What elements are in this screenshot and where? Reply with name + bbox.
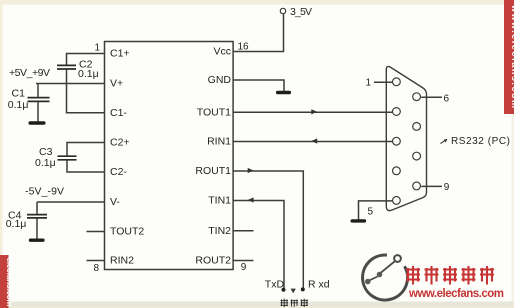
U1 right pin labels — [195, 46, 231, 267]
DB9 pin 8 — [413, 152, 421, 160]
arrow to MCU — [291, 289, 296, 294]
wire C2 to C1- pin — [67, 70, 105, 113]
DB9 pin 2 — [393, 108, 401, 116]
svg-text:0.1μ: 0.1μ — [8, 99, 29, 111]
svg-text:3_5V: 3_5V — [290, 6, 312, 18]
wire C1+ pin1 to C2 — [67, 54, 105, 65]
watermark bottom-left red bar — [0, 255, 14, 308]
svg-text:TOUT2: TOUT2 — [110, 226, 144, 238]
svg-text:TxD: TxD — [265, 279, 285, 291]
wire ROUT2 stub — [233, 260, 253, 262]
wire RIN1 from DB9 pin3 — [233, 141, 393, 143]
arrow on RIN1 wire — [311, 138, 317, 143]
capacitor C1 plates — [28, 98, 50, 102]
svg-text:RIN1: RIN1 — [207, 136, 231, 148]
arrow on TOUT1 wire — [311, 109, 317, 114]
ground for DB9 pin5 — [351, 219, 367, 222]
ground for C1 — [29, 121, 46, 124]
svg-text:6: 6 — [444, 93, 450, 104]
capacitor C4 stem — [36, 202, 38, 239]
wire DB9 pin5 to ground — [359, 201, 393, 220]
ground for C4 — [29, 239, 45, 242]
DB9 pin 5 — [393, 197, 401, 205]
svg-text:0.1μ: 0.1μ — [35, 157, 56, 169]
U1 left pin labels — [110, 48, 144, 267]
svg-text:TOUT1: TOUT1 — [197, 106, 231, 118]
node dot R xd wire end — [301, 287, 305, 291]
svg-text:C2-: C2- — [110, 166, 127, 178]
wire Vcc pin16 to 3_5V terminal — [233, 14, 283, 51]
svg-text:TIN2: TIN2 — [208, 225, 231, 237]
wire C3 to C2- pin — [67, 161, 105, 173]
node dot TxD wire end — [282, 288, 286, 292]
wire DB9 pin1 — [374, 81, 393, 83]
svg-text:ROUT2: ROUT2 — [195, 255, 231, 267]
watermark elecfans logo icon — [363, 255, 408, 300]
svg-text:www.elecfans.com: www.elecfans.com — [510, 4, 514, 108]
svg-text:Vcc: Vcc — [213, 46, 231, 58]
svg-text:www.elecfans.com: www.elecfans.com — [408, 288, 504, 300]
svg-text:0.1μ: 0.1μ — [78, 68, 99, 80]
DB9 pin 6 — [413, 93, 421, 101]
DB9 pin 1 — [393, 78, 401, 86]
svg-text:-5V_-9V: -5V_-9V — [25, 186, 64, 198]
wire TIN1 from TxD — [233, 201, 284, 289]
svg-text:C2+: C2+ — [110, 137, 130, 149]
svg-text:RS232 (PC): RS232 (PC) — [451, 136, 510, 147]
svg-text:C1+: C1+ — [110, 48, 130, 60]
capacitor C3 labels — [35, 146, 56, 169]
svg-text:16: 16 — [238, 42, 250, 53]
svg-text:C1: C1 — [12, 87, 26, 99]
terminal 3_5V — [280, 6, 312, 18]
wire C2+ pin to C3 — [67, 143, 105, 156]
wire DB9 pin6 — [421, 96, 442, 98]
svg-text:ROUT1: ROUT1 — [195, 165, 231, 177]
wire DB9 pin9 — [421, 185, 442, 187]
svg-text:0.1μ: 0.1μ — [6, 218, 27, 230]
capacitor C4 plates — [27, 215, 47, 218]
watermark top-right red bar — [504, 0, 514, 114]
capacitor C1 stem — [37, 84, 39, 122]
DB9 pin 3 — [393, 137, 401, 145]
arrow on TIN1 wire — [248, 197, 254, 202]
wire RIN2 stub — [87, 260, 105, 262]
svg-text:5: 5 — [368, 207, 374, 218]
svg-text:1: 1 — [365, 78, 371, 89]
capacitor C2 labels — [78, 59, 99, 80]
wire ROUT1 to R xd — [233, 171, 303, 288]
connector J1 DB9 shell — [386, 66, 426, 210]
IC U1 MAX232 box — [105, 42, 234, 270]
svg-text:1: 1 — [94, 43, 100, 54]
svg-text:8: 8 — [93, 263, 99, 274]
wire GND pin to ground — [233, 80, 284, 91]
arrow on ROUT1 wire — [248, 168, 254, 173]
capacitor C4 labels — [6, 210, 27, 230]
DB9 pin 7 — [413, 123, 421, 131]
svg-text:TIN1: TIN1 — [208, 195, 231, 207]
label 单片机 (MCU) pseudo-glyphs — [281, 299, 309, 307]
wire V- rail — [37, 201, 105, 203]
svg-text:R xd: R xd — [308, 279, 330, 291]
ground for GND pin — [276, 91, 291, 94]
svg-text:V+: V+ — [110, 78, 123, 90]
wire TIN2 stub — [233, 230, 253, 232]
label RS232 (PC) — [441, 136, 511, 147]
capacitor C3 plates — [58, 156, 77, 160]
watermark 电子发烧友 pseudo-glyphs — [406, 266, 494, 285]
wire TOUT1 to DB9 pin2 — [233, 111, 393, 113]
svg-text:9: 9 — [444, 182, 450, 193]
svg-text:V-: V- — [110, 196, 120, 208]
svg-text:C1-: C1- — [110, 107, 127, 119]
capacitor C2 plates — [57, 65, 76, 69]
wire V+ rail — [36, 83, 105, 85]
capacitor C1 labels — [8, 87, 29, 111]
DB9 pin 9 — [413, 182, 421, 190]
svg-text:9: 9 — [241, 262, 247, 273]
svg-text:GND: GND — [208, 74, 232, 86]
svg-text:elecfans.com: elecfans.com — [5, 258, 14, 307]
svg-text:RIN2: RIN2 — [110, 255, 134, 267]
wire TOUT2 stub — [87, 231, 105, 233]
svg-text:+5V_+9V: +5V_+9V — [9, 67, 50, 79]
DB9 pin 4 — [393, 167, 401, 175]
